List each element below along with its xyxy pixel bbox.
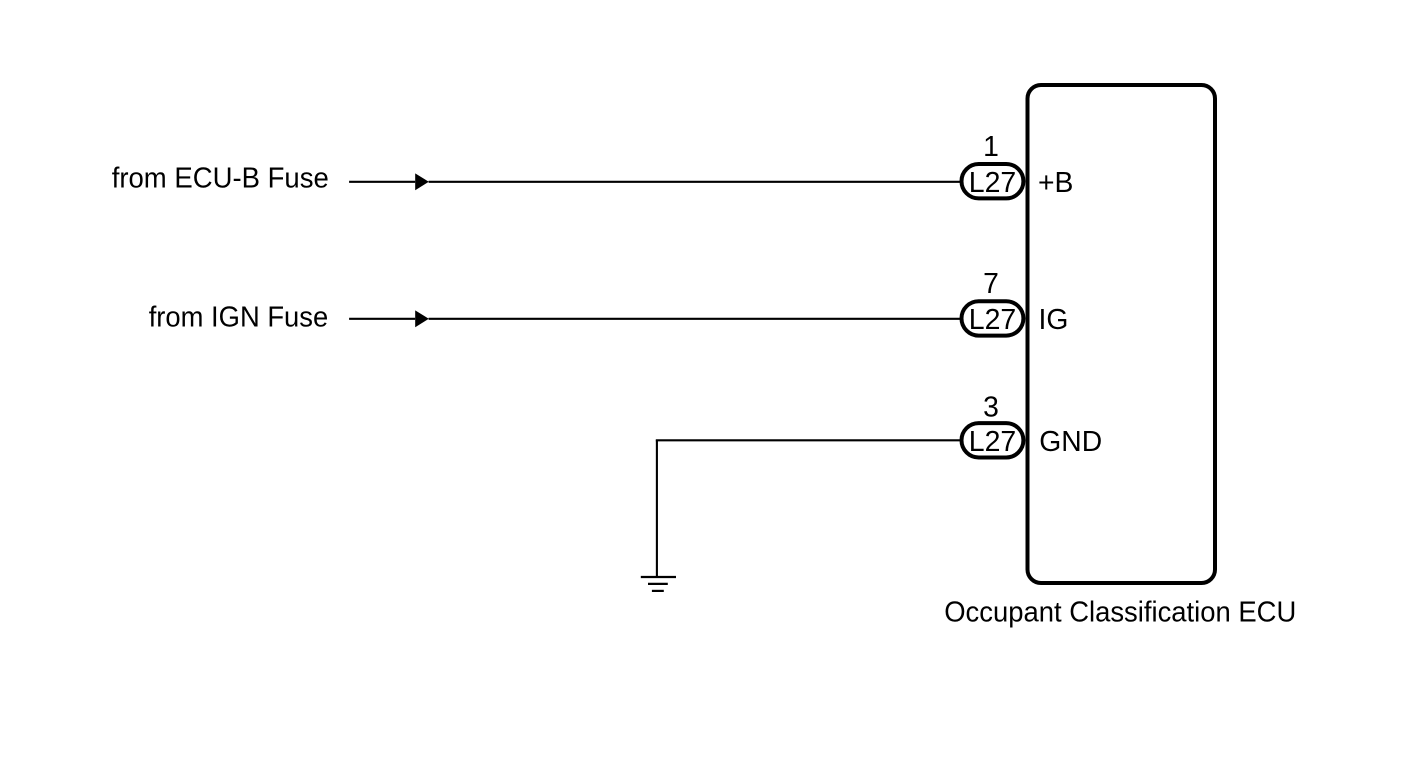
ground symbol (top bar) — [641, 576, 676, 578]
svg-text:3: 3 — [983, 390, 999, 422]
arrowhead on IGN wire — [415, 310, 429, 327]
svg-text:L27: L27 — [969, 303, 1017, 335]
wire from IGN Fuse to pin 7 (left segment) — [349, 318, 415, 320]
connector oval L27 pin 1 — [962, 164, 1024, 198]
svg-text:IG: IG — [1039, 303, 1069, 335]
wire from ground to pin 3 (horizontal segment) — [656, 439, 961, 441]
arrowhead on ECU-B wire — [415, 173, 429, 190]
svg-text:from IGN Fuse: from IGN Fuse — [149, 301, 329, 333]
wire from ground to pin 3 (vertical segment) — [656, 440, 658, 577]
connector oval L27 pin 7 — [962, 301, 1024, 335]
ground symbol (bottom bar) — [652, 590, 664, 592]
svg-text:1: 1 — [983, 130, 999, 162]
svg-text:L27: L27 — [969, 166, 1017, 198]
ground symbol (middle bar) — [648, 583, 668, 585]
svg-text:7: 7 — [983, 267, 999, 299]
svg-text:+B: +B — [1038, 166, 1073, 198]
svg-text:GND: GND — [1039, 425, 1102, 457]
svg-text:Occupant Classification ECU: Occupant Classification ECU — [944, 595, 1296, 627]
svg-text:from ECU-B Fuse: from ECU-B Fuse — [112, 162, 329, 194]
ECU box U1 (Occupant Classification ECU body) — [1028, 85, 1216, 583]
connector oval L27 pin 3 — [962, 423, 1024, 457]
wire from ECU-B Fuse to pin 1 (right segment) — [429, 181, 961, 183]
wire from ECU-B Fuse to pin 1 (left segment) — [349, 181, 415, 183]
wire from IGN Fuse to pin 7 (right segment) — [429, 318, 961, 320]
svg-text:L27: L27 — [969, 425, 1017, 457]
